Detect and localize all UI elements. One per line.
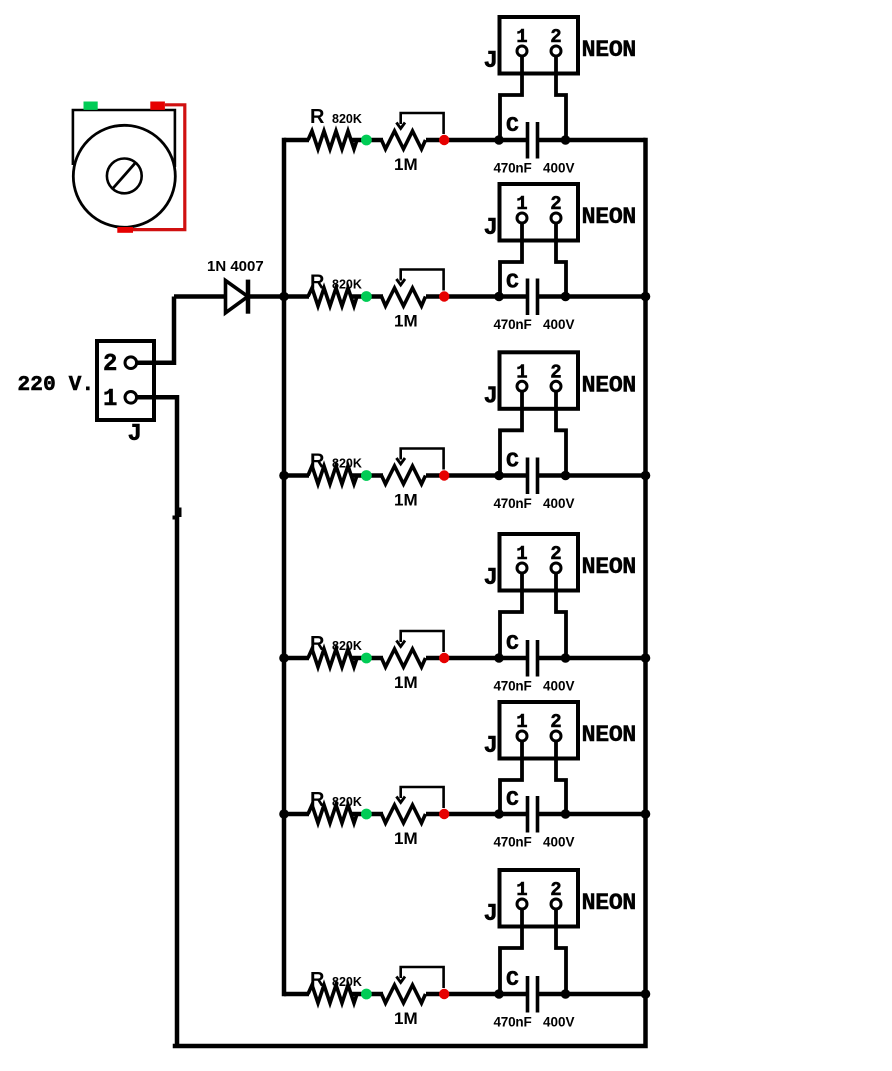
wiper arrowhead [396,279,405,285]
wire neon pin1 to node [500,741,522,814]
svg-text:1M: 1M [394,491,418,510]
wiper arrowhead [396,458,405,464]
junction dot cap left [494,471,504,481]
row 1 wire segments [284,138,646,143]
wire neon pin1 to node [500,56,522,140]
potentiometer P1 1M zigzag [382,131,426,149]
junction dot right bus [641,471,651,481]
wire pin1 down to bottom rail [137,397,177,1046]
potentiometer P5 1M zigzag [382,805,426,823]
svg-text:220 V.: 220 V. [18,374,95,397]
svg-text:C: C [506,788,519,812]
pin 2 circle [551,46,561,56]
row 2 wire segments [284,294,646,299]
wire neon pin2 to node [556,391,566,475]
svg-text:1M: 1M [394,673,418,692]
svg-text:400V: 400V [543,679,575,694]
red node dot (wiper tie) [439,989,449,999]
red terminal tab top [150,102,165,110]
svg-text:J: J [128,421,142,448]
capacitor C1 plates [528,122,538,159]
svg-text:1: 1 [103,386,117,413]
potentiometer wiper [401,631,444,652]
row 3 wire segments [284,473,646,478]
wire neon pin2 to node [556,741,566,814]
svg-text:R: R [310,633,325,655]
wire neon pin2 to node [556,56,566,140]
right bus wire and bottom rail wire [175,140,646,1046]
pin 2 circle [551,213,561,223]
potentiometer wiper [401,787,444,808]
potentiometer wiper [401,270,444,291]
svg-text:820K: 820K [332,795,362,809]
svg-text:R: R [310,272,325,294]
junction dot cap right [561,471,571,481]
svg-text:1M: 1M [394,155,418,174]
trimmer screw slot circle [107,159,142,194]
green node dot [361,291,372,302]
wiper arrowhead [396,641,405,647]
svg-text:NEON: NEON [582,204,636,231]
svg-text:470nF: 470nF [494,835,532,850]
red node dot (wiper tie) [439,809,449,819]
wire neon pin2 to node [556,573,566,658]
NEON connector J6 box [500,870,579,927]
red node dot (wiper tie) [439,135,449,145]
svg-text:1M: 1M [394,312,418,331]
pin 1 circle [517,899,527,909]
svg-text:NEON: NEON [582,37,636,64]
green node dot [361,135,372,146]
capacitor C2 plates [528,279,538,316]
junction dot cap right [561,989,571,999]
green node dot [361,989,372,1000]
resistor R4 820K zigzag [308,649,357,667]
svg-text:400V: 400V [543,161,575,176]
svg-text:1M: 1M [394,1009,418,1028]
potentiometer P2 1M zigzag [382,288,426,306]
capacitor C6 plates [528,976,538,1013]
resistor R6 820K zigzag [308,985,357,1003]
wiper arrowhead [396,123,405,129]
pin 1 circle [517,731,527,741]
pin 1 circle [125,392,137,404]
pin 2 circle [551,381,561,391]
svg-text:R: R [310,106,325,128]
junction dot cap right [561,809,571,819]
wire neon pin1 to node [500,223,522,297]
wire artifact blob [177,508,182,518]
svg-text:820K: 820K [332,278,362,292]
row 4 wire segments [284,656,646,661]
pin 1 circle [517,213,527,223]
potentiometer P6 1M zigzag [382,985,426,1003]
svg-text:NEON: NEON [582,372,636,399]
green node dot [361,470,372,481]
svg-text:NEON: NEON [582,722,636,749]
junction dot cap left [494,809,504,819]
svg-text:820K: 820K [332,457,362,471]
diode D1 1N4007 triangle [226,281,248,313]
red node dot (wiper tie) [439,291,449,301]
red wire [133,105,185,230]
wire neon pin1 to node [500,391,522,475]
svg-text:2: 2 [103,351,117,378]
wire pin2 to diode anode [137,297,174,363]
red terminal tab bottom [117,227,133,233]
junction dot left bus [279,471,289,481]
row 5 wire segments [284,812,646,817]
svg-text:C: C [506,968,519,992]
junction dot cap left [494,989,504,999]
svg-text:820K: 820K [332,975,362,989]
svg-text:R: R [310,451,325,473]
resistor R3 820K zigzag [308,466,357,484]
wiper arrowhead [396,797,405,803]
pin 2 circle [551,899,561,909]
svg-text:470nF: 470nF [494,679,532,694]
left bus wire [282,140,287,994]
pin 1 circle [517,381,527,391]
green terminal tab [84,102,98,110]
potentiometer P4 1M zigzag [382,649,426,667]
potentiometer wiper [401,113,444,134]
svg-text:C: C [506,114,519,138]
svg-text:1N 4007: 1N 4007 [207,258,264,275]
potentiometer wiper [401,967,444,988]
junction dot right bus [641,989,651,999]
green node dot [361,809,372,820]
svg-text:470nF: 470nF [494,496,532,511]
green node dot [361,653,372,664]
connector J (mains) box [97,341,154,420]
junction dot cap right [561,135,571,145]
trimmer body outline [73,110,175,167]
resistor R5 820K zigzag [308,805,357,823]
diode D1 cathode bar [246,280,251,314]
svg-text:400V: 400V [543,317,575,332]
red node dot (wiper tie) [439,470,449,480]
wire neon pin2 to node [556,223,566,297]
svg-text:C: C [506,632,519,656]
NEON connector J2 box [500,184,579,241]
resistor R1 820K zigzag [308,131,357,149]
wire diode row (anode to left bus) [174,294,284,299]
junction dot left bus [279,653,289,663]
svg-text:J: J [484,48,498,75]
junction dot right bus [641,292,651,302]
junction dot cap right [561,653,571,663]
svg-text:J: J [484,565,498,592]
junction dot left bus [279,809,289,819]
svg-text:820K: 820K [332,639,362,653]
NEON connector J4 box [500,534,579,591]
svg-text:C: C [506,450,519,474]
svg-text:J: J [484,383,498,410]
svg-text:400V: 400V [543,835,575,850]
svg-text:J: J [484,901,498,928]
svg-text:400V: 400V [543,1015,575,1030]
capacitor C5 plates [528,796,538,833]
pin 1 circle [517,46,527,56]
junction dot right bus [641,653,651,663]
trimmer screw slot slash [113,163,135,188]
junction dot right bus [641,809,651,819]
svg-text:C: C [506,271,519,295]
junction dot cap left [494,292,504,302]
pin 2 circle [551,731,561,741]
red node dot (wiper tie) [439,653,449,663]
wire neon pin2 to node [556,909,566,994]
svg-text:470nF: 470nF [494,1015,532,1030]
capacitor C3 plates [528,458,538,495]
svg-text:1M: 1M [394,829,418,848]
pin 2 circle [125,357,137,369]
row 6 wire segments [284,992,646,997]
trimmer outer circle [73,125,175,227]
junction dot left bus [279,292,289,302]
capacitor C4 plates [528,640,538,677]
pin 1 circle [517,563,527,573]
wire neon pin1 to node [500,909,522,994]
svg-text:470nF: 470nF [494,317,532,332]
junction dot cap left [494,135,504,145]
junction dot cap left [494,653,504,663]
NEON connector J1 box [500,17,579,74]
potentiometer P3 1M zigzag [382,466,426,484]
wiper arrowhead [396,977,405,983]
wire neon pin1 to node [500,573,522,658]
svg-text:J: J [484,215,498,242]
svg-text:NEON: NEON [582,554,636,581]
svg-text:R: R [310,969,325,991]
NEON connector J3 box [500,352,579,409]
potentiometer wiper [401,449,444,470]
pin 2 circle [551,563,561,573]
junction dot cap right [561,292,571,302]
resistor R2 820K zigzag [308,288,357,306]
NEON connector J5 box [500,702,579,759]
svg-text:NEON: NEON [582,890,636,917]
svg-text:400V: 400V [543,496,575,511]
svg-text:820K: 820K [332,112,362,126]
svg-text:J: J [484,733,498,760]
svg-text:470nF: 470nF [494,161,532,176]
svg-text:R: R [310,789,325,811]
